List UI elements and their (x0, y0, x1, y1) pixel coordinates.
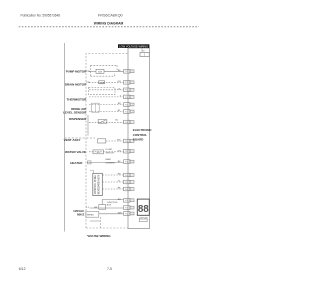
svg-text:LEVEL SENSOR: LEVEL SENSOR (63, 111, 87, 115)
svg-text:BOX: BOX (107, 205, 112, 207)
svg-text:WIRING DIAGRAM: WIRING DIAGRAM (94, 22, 124, 26)
svg-text:KEYBOARD ASSY: KEYBOARD ASSY (98, 174, 101, 194)
svg-text:LOW VOLTAGE WIRING: LOW VOLTAGE WIRING (119, 46, 148, 49)
svg-text:CONTROL PANEL: CONTROL PANEL (94, 174, 97, 194)
svg-text:WH/BK: WH/BK (87, 214, 95, 216)
svg-text:Publication No: 5995573648: Publication No: 5995573648 (21, 13, 61, 17)
svg-text:L1: L1 (87, 207, 90, 209)
svg-text:RD: RD (117, 140, 121, 142)
svg-text:ELECTRONIC: ELECTRONIC (133, 128, 153, 132)
svg-text:FLOAT: FLOAT (106, 148, 113, 151)
svg-text:BL: BL (116, 120, 119, 122)
svg-text:BOARD: BOARD (133, 138, 144, 142)
svg-text:SWITCH: SWITCH (106, 152, 115, 154)
svg-text:PUMP MOTOR: PUMP MOTOR (66, 69, 87, 73)
svg-text:CONTROL: CONTROL (133, 133, 148, 137)
svg-text:WATER VALVE: WATER VALVE (65, 150, 86, 154)
svg-text:60HZ: 60HZ (77, 212, 85, 216)
svg-text:RD: RD (118, 174, 122, 176)
svg-text:7-5: 7-5 (107, 267, 112, 271)
svg-text:WH: WH (118, 212, 122, 214)
svg-text:RD: RD (118, 103, 122, 105)
svg-text:50W: 50W (98, 71, 102, 73)
svg-text:HEAT: HEAT (106, 158, 112, 161)
svg-text:VIO: VIO (117, 81, 121, 83)
svg-text:BN: BN (118, 199, 121, 201)
svg-text:GY: GY (118, 150, 122, 152)
svg-text:FRS6CA6KQ0: FRS6CA6KQ0 (98, 13, 123, 17)
svg-text:6/12: 6/12 (19, 267, 26, 271)
svg-text:THERMISTOR: THERMISTOR (67, 97, 88, 101)
svg-text:HEATER: HEATER (70, 161, 83, 165)
svg-text:PR: PR (87, 71, 90, 73)
svg-text:ELEMENT: ELEMENT (106, 163, 117, 165)
svg-text:*HOUSE WIRING: *HOUSE WIRING (87, 234, 112, 238)
svg-text:120W: 120W (99, 82, 104, 84)
svg-text:VENT ASSY: VENT ASSY (64, 138, 81, 142)
svg-text:DRAIN MOTOR: DRAIN MOTOR (65, 82, 87, 86)
svg-text:PR: PR (87, 82, 90, 84)
svg-text:88: 88 (138, 204, 149, 215)
svg-text:DISPENSER: DISPENSER (69, 117, 87, 121)
